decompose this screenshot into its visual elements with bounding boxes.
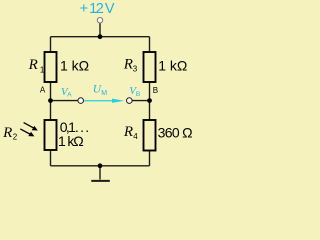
- svg-text:M: M: [101, 90, 107, 97]
- svg-text:A: A: [40, 86, 46, 95]
- svg-text:R: R: [28, 57, 38, 73]
- svg-text:1 kΩ: 1 kΩ: [158, 57, 187, 73]
- svg-text:R: R: [2, 125, 12, 141]
- svg-text:R: R: [123, 124, 133, 140]
- svg-text:1: 1: [40, 65, 45, 74]
- svg-text:1 kΩ: 1 kΩ: [58, 133, 84, 149]
- svg-text:+ 12 V: + 12 V: [80, 1, 115, 17]
- svg-text:B: B: [136, 91, 140, 98]
- svg-text:B: B: [153, 86, 158, 95]
- svg-text:A: A: [67, 92, 72, 99]
- svg-text:1 kΩ: 1 kΩ: [60, 57, 89, 73]
- svg-text:2: 2: [13, 133, 18, 142]
- svg-text:4: 4: [133, 132, 138, 141]
- svg-text:R: R: [123, 57, 133, 73]
- svg-text:360 Ω: 360 Ω: [158, 125, 193, 141]
- svg-text:3: 3: [133, 64, 138, 73]
